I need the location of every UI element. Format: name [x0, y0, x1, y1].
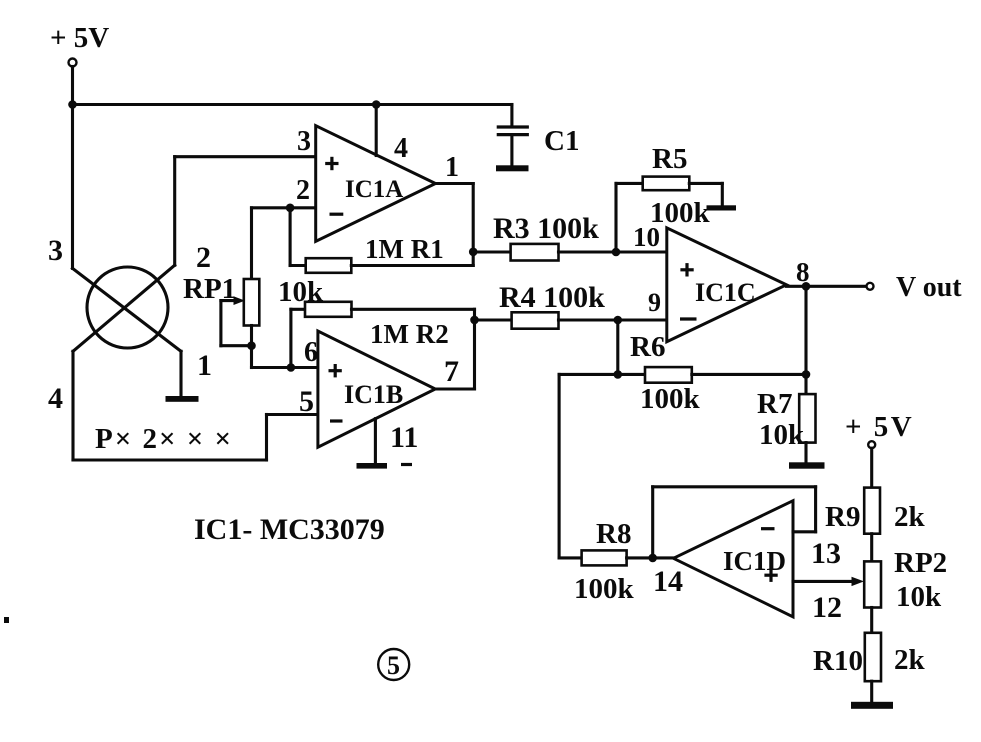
- wire: sensor diagonal 3-to-1: [73, 268, 182, 351]
- svg-text:R6: R6: [630, 331, 665, 363]
- resistor R10: [865, 633, 881, 681]
- svg-text:1M R2: 1M R2: [370, 319, 449, 349]
- figure number 5 (circled): [378, 649, 409, 680]
- wire: rail down to C1: [510, 105, 513, 126]
- ground at R7: [789, 443, 825, 469]
- svg-text:R5: R5: [652, 143, 687, 175]
- junction at RP1 bottom/wiper: [247, 341, 256, 350]
- potentiometer RP2: [864, 561, 881, 607]
- svg-text:5: 5: [387, 651, 400, 680]
- svg-text:R10: R10: [813, 645, 863, 677]
- wire: bottom loop to IC1B pin 5: [73, 415, 318, 461]
- svg-text:3: 3: [48, 234, 63, 267]
- resistor R3: [473, 244, 667, 261]
- junction at IC1A output / R3: [469, 248, 478, 257]
- junction at rail / IC1A pin 4: [372, 100, 381, 109]
- svg-text:1: 1: [445, 152, 459, 183]
- svg-text:10: 10: [633, 222, 660, 252]
- svg-text:2k: 2k: [894, 644, 926, 676]
- op-amp IC1D: [673, 501, 793, 617]
- junction at pin 6 node: [287, 363, 296, 372]
- junction at R6 left node: [614, 370, 623, 379]
- junction at IC1D output node: [648, 554, 657, 563]
- svg-text:14: 14: [653, 565, 683, 598]
- junction at IC1B output / R4: [470, 316, 479, 325]
- svg-text:IC1D: IC1D: [723, 546, 786, 576]
- wire: R6 left down to R8: [558, 374, 561, 558]
- svg-text:R9: R9: [825, 501, 860, 533]
- svg-text:10k: 10k: [896, 581, 942, 613]
- svg-text:2: 2: [296, 175, 310, 206]
- +5V supply terminal (left): [69, 59, 77, 105]
- svg-text:9: 9: [648, 288, 661, 317]
- resistor R8: [559, 550, 673, 565]
- svg-text:+ 5V: + 5V: [845, 411, 914, 443]
- svg-text:R8: R8: [596, 518, 631, 550]
- op-amp IC1B: [318, 331, 435, 447]
- resistor R6: [559, 367, 806, 383]
- junction at +5V rail left: [68, 100, 77, 109]
- wire: pin 2 node down to R1: [289, 208, 292, 266]
- resistor R1: [290, 258, 473, 273]
- op-amp IC1C: [667, 228, 787, 342]
- ground at R10: [851, 681, 893, 709]
- wire: sensor pin 4 down to bottom loop: [71, 351, 74, 460]
- svg-text:2: 2: [196, 241, 211, 274]
- svg-text:V out: V out: [896, 272, 962, 303]
- wire: IC1D feedback loop to pin 13: [653, 487, 816, 558]
- sensor bridge circle: [87, 267, 168, 348]
- wire: IC1B output: [435, 309, 474, 389]
- svg-text:IC1C: IC1C: [695, 278, 756, 307]
- +5V supply terminal (right): [868, 441, 875, 487]
- svg-text:RP2: RP2: [894, 547, 947, 579]
- junction at R3 / R5 / pin 10: [612, 248, 621, 257]
- svg-text:4: 4: [48, 382, 63, 415]
- junction at pin 2 node: [286, 204, 295, 213]
- wire: IC1A pin 4 stem: [375, 105, 378, 156]
- svg-text:1M R1: 1M R1: [365, 234, 444, 264]
- Vout terminal: [867, 283, 874, 290]
- svg-text:IC1- MC33079: IC1- MC33079: [194, 513, 385, 546]
- wire: rail to sensor (left drop): [71, 105, 74, 269]
- svg-text:R7: R7: [757, 388, 792, 420]
- svg-text:7: 7: [444, 355, 459, 388]
- resistor R4: [475, 312, 667, 328]
- svg-text:13: 13: [811, 537, 841, 570]
- junction at R4 / pin 9: [614, 316, 623, 325]
- op-amp IC1A: [316, 126, 436, 242]
- svg-text:RP1: RP1: [183, 273, 236, 305]
- resistor R5: [616, 177, 722, 252]
- resistor R9: [864, 488, 880, 534]
- svg-text:5: 5: [299, 385, 314, 418]
- svg-text:3: 3: [297, 126, 311, 157]
- wire: pin 9 node down to R6: [616, 320, 619, 374]
- capacitor C1: [496, 127, 529, 171]
- wire: sensor pin 2 up and to IC1A pin 3: [175, 157, 316, 266]
- wire: +5V rail horizontal: [73, 103, 512, 106]
- svg-text:10k: 10k: [759, 419, 805, 451]
- svg-text:+ 5V: + 5V: [50, 22, 109, 54]
- wire: IC1D pin 12 to RP2 wiper (arrow): [793, 577, 864, 586]
- wire: IC1C output to Vout: [786, 285, 866, 288]
- junction at output node: [802, 282, 811, 291]
- svg-text:R3 100k: R3 100k: [493, 212, 599, 245]
- ground at R5: [707, 183, 737, 210]
- svg-text:1: 1: [197, 349, 212, 382]
- svg-text:R4 100k: R4 100k: [499, 281, 605, 314]
- svg-text:100k: 100k: [574, 573, 635, 605]
- resistor R2: [291, 302, 475, 368]
- resistor R7: [799, 394, 815, 443]
- ground at sensor pin 1: [166, 351, 199, 402]
- wire: sensor diagonal 2-to-4: [73, 265, 175, 351]
- svg-text:IC1B: IC1B: [344, 380, 403, 409]
- svg-text:2k: 2k: [894, 501, 926, 533]
- wire: RP2 to R10: [870, 608, 873, 633]
- svg-text:12: 12: [812, 591, 842, 624]
- svg-text:6: 6: [304, 337, 318, 368]
- svg-text:C1: C1: [544, 125, 579, 157]
- junction at R6 right / output vertical: [802, 370, 811, 379]
- svg-text:100k: 100k: [640, 383, 701, 415]
- svg-text:P× 2× × ×: P× 2× × ×: [95, 423, 233, 455]
- svg-text:4: 4: [394, 133, 408, 164]
- wire: output vertical down: [804, 286, 807, 394]
- wire: pin 2 node down to RP1: [250, 208, 253, 279]
- wire: IC1A pin 2 node: [252, 206, 316, 209]
- wire: RP1 to IC1B pin 6: [252, 346, 318, 368]
- wire: R9 to RP2: [870, 534, 873, 562]
- potentiometer RP1: [221, 279, 259, 346]
- ground at IC1B pin 11: [357, 419, 388, 469]
- wire: IC1A output: [436, 184, 474, 266]
- svg-text:11: 11: [390, 421, 418, 454]
- svg-text:IC1A: IC1A: [345, 176, 403, 203]
